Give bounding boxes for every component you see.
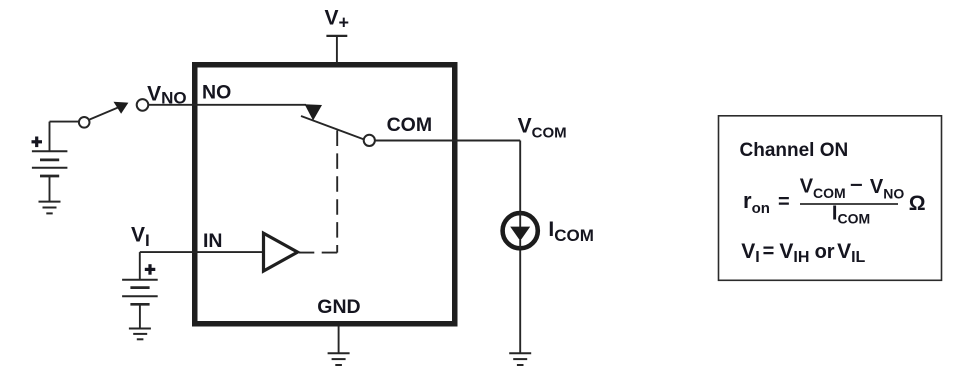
svg-text:Channel ON: Channel ON (740, 140, 849, 161)
svg-text:or: or (815, 241, 835, 263)
svg-text:IN: IN (203, 230, 223, 252)
svg-text:=: = (763, 241, 775, 263)
svg-text:COM: COM (387, 114, 433, 136)
svg-text:Ω: Ω (909, 192, 926, 215)
svg-text:=: = (778, 191, 790, 213)
svg-text:NO: NO (202, 82, 231, 104)
svg-text:GND: GND (317, 296, 360, 318)
